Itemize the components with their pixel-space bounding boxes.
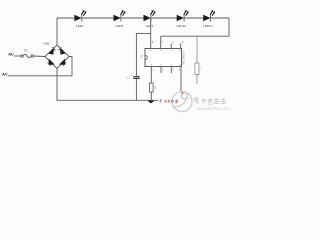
svg-text:AC: AC	[2, 71, 8, 76]
svg-text:F1: F1	[24, 49, 28, 53]
svg-text:LED1: LED1	[76, 24, 84, 28]
svg-text:U1: U1	[139, 54, 143, 58]
svg-text:MC34063: MC34063	[182, 51, 186, 64]
svg-text:LED7: LED7	[146, 24, 154, 28]
svg-text:LED3: LED3	[116, 24, 124, 28]
svg-text:LED10: LED10	[177, 24, 187, 28]
svg-text:R2: R2	[197, 67, 201, 71]
svg-text:LED14: LED14	[203, 24, 213, 28]
svg-text:AC: AC	[8, 52, 14, 57]
svg-text:www.elecfans.com: www.elecfans.com	[197, 106, 230, 111]
svg-text:DB1: DB1	[44, 42, 50, 46]
